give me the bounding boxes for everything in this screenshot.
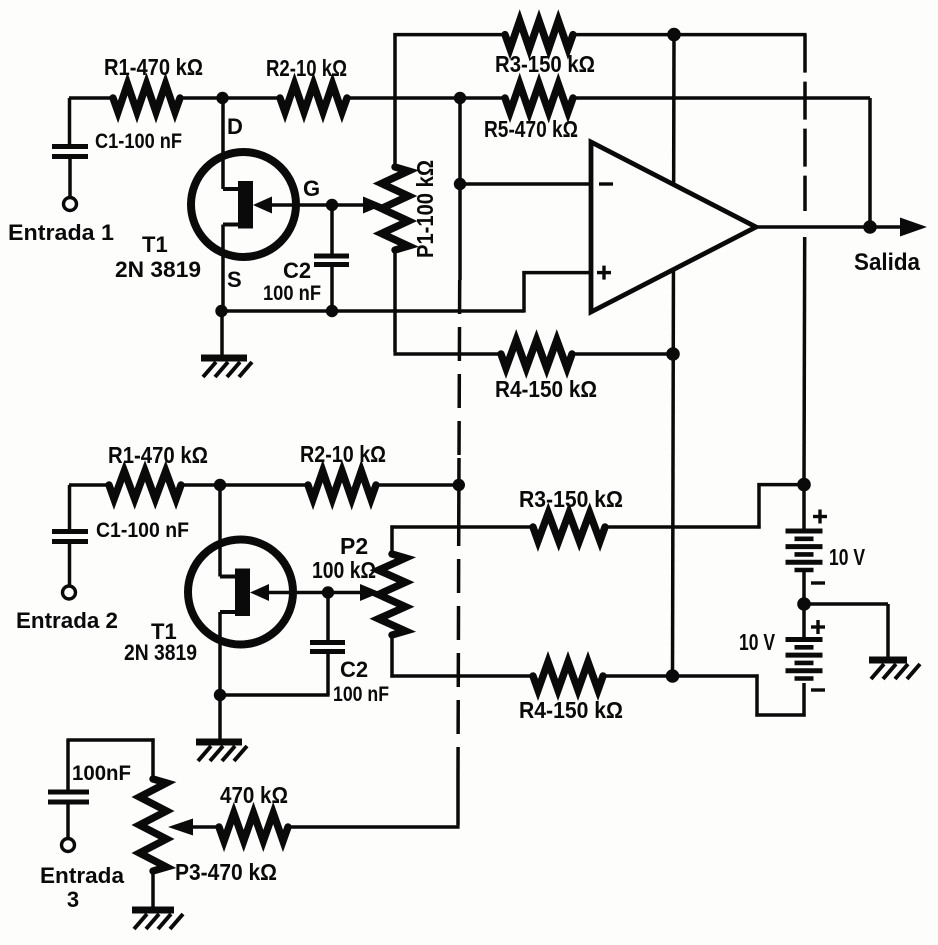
- svg-text:R1-470 kΩ: R1-470 kΩ: [108, 442, 208, 468]
- svg-text:R2-10 kΩ: R2-10 kΩ: [300, 441, 386, 467]
- transistor T1 (stage 1) 2N3819 JFET: [191, 152, 296, 257]
- capacitor C1 (stage 1) upper lead: [68, 98, 72, 144]
- capacitor C2 (stage 2) lower lead: [326, 654, 330, 695]
- node: C2 bottom stage 1: [326, 305, 338, 317]
- wire: P3 wiper to 470k resistor: [192, 825, 220, 829]
- wire: source rail stage 1 to plus-input jog: [221, 309, 524, 313]
- ground: stage 1 source: [220, 311, 224, 357]
- wire: R3 to battery dashed riser: [573, 33, 807, 37]
- terminal: Entrada 1: [64, 198, 77, 211]
- wire: R1 to drain node: [180, 96, 281, 100]
- svg-text:470 kΩ: 470 kΩ: [220, 782, 288, 808]
- svg-text:2N 3819: 2N 3819: [115, 257, 201, 282]
- wire: R5 to output riser: [573, 96, 870, 100]
- arrowhead: output Salida: [900, 218, 927, 237]
- transistor T1 (stage 1) drain wire: [221, 98, 225, 189]
- wire: summing bus dashed middle: [457, 280, 461, 458]
- wire: positive supply riser solid lower: [802, 237, 806, 484]
- node: drain stage 2: [214, 479, 226, 491]
- wire: op-amp output: [756, 225, 903, 229]
- battery B1 10V plates: [786, 529, 823, 534]
- wire: source rail stage 2: [220, 693, 330, 697]
- node: battery midpoint: [797, 597, 811, 611]
- node: gate/C2 stage 1: [326, 199, 338, 211]
- resistor 470k (input 3): [219, 813, 288, 841]
- resistor R1 (stage 1): [113, 84, 180, 112]
- node: top rail R3 junction: [667, 28, 681, 42]
- svg-text:100 kΩ: 100 kΩ: [312, 557, 376, 583]
- svg-text:R1-470 kΩ: R1-470 kΩ: [104, 54, 203, 80]
- capacitor C1 (stage 2) lower lead: [68, 544, 72, 586]
- op-amp plus sign: [597, 271, 611, 274]
- transistor T1 (stage 2) source wire: [218, 612, 222, 695]
- op-amp U1 triangle: [591, 142, 756, 312]
- resistor R5 feedback: [505, 84, 573, 112]
- potentiometer P3 bottom lead: [151, 871, 155, 909]
- resistor R2 (stage 1): [280, 84, 347, 112]
- wire: top rail to R3: [393, 33, 506, 37]
- terminal: Entrada 3: [62, 839, 75, 852]
- wire: input-2 top lead from C1 to R1: [69, 483, 110, 487]
- svg-text:P1-100 kΩ: P1-100 kΩ: [412, 160, 438, 258]
- wire: gate of T1 stage 1 to C2 node: [270, 203, 364, 207]
- svg-text:C1-100 nF: C1-100 nF: [96, 519, 189, 542]
- terminal: Entrada 2: [63, 586, 76, 599]
- svg-text:2N 3819: 2N 3819: [124, 640, 197, 665]
- capacitor C1 (stage 2) plates 100nF: [52, 529, 88, 534]
- node: gate/C2 stage 2: [322, 586, 334, 598]
- capacitor C2 (stage 1) upper lead: [330, 205, 334, 254]
- wire: battery midpoint: [802, 570, 806, 604]
- wire: battery top lead: [802, 485, 806, 529]
- svg-text:Entrada: Entrada: [40, 863, 125, 888]
- svg-text:Entrada 2: Entrada 2: [16, 608, 118, 633]
- capacitor C1 (stage 1) plates 100nF: [52, 144, 88, 149]
- arrowhead: wiper into P2: [360, 584, 381, 601]
- node: minus input tap: [454, 178, 466, 190]
- svg-text:D: D: [227, 114, 243, 139]
- potentiometer P3 470k zigzag: [140, 779, 167, 871]
- wire: R4 stage 2 to battery minus jog: [603, 674, 673, 678]
- node: source rail stage 2: [214, 689, 226, 701]
- wire: dashed positive supply riser (upper): [803, 35, 807, 211]
- capacitor C1 (stage 2) upper lead: [68, 485, 72, 529]
- wire: summing bus to input 3 resistor: [456, 774, 460, 825]
- wire: R1 to drain node stage 2: [181, 483, 309, 487]
- ground: stage 2 source: [218, 695, 222, 741]
- wire: summing bus dashed lower: [456, 512, 460, 774]
- wire: P2 bottom to R4 (stage 2): [390, 635, 394, 678]
- node: stage 2 output on summing bus: [453, 479, 465, 491]
- capacitor C (input 3) upper lead: [66, 740, 70, 790]
- wire: R4 to vertical bus: [572, 352, 673, 356]
- wire: summing bus solid upper segment: [458, 98, 462, 280]
- battery B2 10V plates: [786, 637, 823, 642]
- capacitor C2 (stage 1) lower lead: [330, 267, 334, 311]
- resistor R3 (stage 2): [533, 513, 605, 541]
- node: source rail stage 1: [215, 305, 227, 317]
- capacitor C2 (stage 1) plates 100nF: [314, 254, 349, 259]
- svg-text:R5-470 kΩ: R5-470 kΩ: [484, 116, 578, 142]
- wire: battery mid to B2: [802, 604, 806, 638]
- battery B1 minus sign: [811, 581, 825, 584]
- wire: summing bus at stage 2 drain node: [457, 458, 461, 512]
- svg-text:P2: P2: [340, 533, 368, 559]
- svg-text:3: 3: [67, 887, 79, 912]
- battery B2 plus sign: [811, 625, 825, 628]
- svg-text:R3-150 kΩ: R3-150 kΩ: [495, 51, 595, 77]
- node: R4 stage 2 right junction: [666, 669, 680, 683]
- svg-text:C2: C2: [283, 258, 311, 283]
- node: battery positive top: [797, 478, 811, 492]
- wire: top rail left riser to P1: [393, 33, 397, 167]
- svg-text:C2: C2: [340, 657, 368, 682]
- svg-text:S: S: [227, 267, 242, 292]
- wire: input-1 top lead from C1 to R1: [69, 96, 114, 100]
- potentiometer P1 100k zigzag: [382, 167, 409, 250]
- svg-text:100 nF: 100 nF: [333, 683, 389, 706]
- svg-text:Entrada 1: Entrada 1: [8, 220, 114, 245]
- resistor R4 (stage 2): [533, 662, 603, 690]
- wire: gate of T1 stage 2 to C2 node: [267, 591, 361, 595]
- wire: R2 stage 2 to summing bus: [376, 483, 459, 487]
- arrowhead: wiper into P3: [168, 819, 193, 836]
- transistor T1 (stage 2) drain wire: [218, 485, 222, 577]
- op-amp minus sign: [599, 182, 613, 185]
- wire: plus-input into op-amp: [522, 271, 591, 275]
- svg-text:R2-10 kΩ: R2-10 kΩ: [266, 55, 347, 81]
- battery B1 plus sign: [813, 515, 827, 518]
- wire: P1 bottom to R4: [393, 250, 397, 352]
- svg-text:Salida: Salida: [854, 249, 921, 276]
- transistor T1 (stage 2) 2N3819 JFET: [188, 540, 293, 645]
- battery B2 minus sign: [811, 688, 825, 691]
- wire: R2 to summing node and R5: [347, 96, 506, 100]
- arrowhead: wiper into P1: [363, 197, 384, 214]
- capacitor C (input 3) plates 100nF: [48, 790, 89, 795]
- capacitor C (input 3) lower lead: [66, 805, 70, 839]
- node: R4 stage 1 right: [666, 347, 680, 361]
- node: drain stage 1: [216, 92, 228, 104]
- svg-text:R4-150 kΩ: R4-150 kΩ: [495, 376, 597, 402]
- ground: battery midpoint: [869, 657, 907, 664]
- svg-text:10 V: 10 V: [829, 544, 865, 570]
- svg-text:T1: T1: [142, 232, 168, 257]
- resistor R1 (stage 2): [109, 471, 181, 499]
- transistor T1 (stage 1) source wire: [221, 225, 225, 312]
- node: summing at R2/R5: [454, 92, 466, 104]
- svg-text:10 V: 10 V: [739, 629, 775, 655]
- wire: P2 top to R3 (stage 2): [390, 525, 394, 554]
- wire: battery midpoint to ground: [804, 602, 888, 606]
- capacitor C2 (stage 2) plates 100nF: [310, 640, 345, 645]
- svg-text:P3-470 kΩ: P3-470 kΩ: [175, 859, 277, 885]
- wire: plus-input jog vertical: [522, 271, 526, 313]
- ground: P3 bottom: [132, 907, 174, 914]
- svg-text:R3-150 kΩ: R3-150 kΩ: [519, 486, 623, 512]
- resistor R4 (stage 1): [501, 340, 572, 368]
- capacitor C2 (stage 2) upper lead: [326, 593, 330, 641]
- resistor R3 (stage 1, top): [505, 21, 573, 49]
- wire: input-3 top rail: [66, 738, 154, 742]
- wire: feedback riser from output: [868, 98, 872, 227]
- svg-text:R4-150 kΩ: R4-150 kΩ: [519, 697, 623, 723]
- svg-text:100 nF: 100 nF: [263, 282, 321, 305]
- node: output junction: [863, 220, 877, 234]
- potentiometer P3 top lead: [151, 738, 155, 779]
- wire: minus-input into op-amp: [460, 182, 591, 186]
- capacitor C1 (stage 1) lower lead: [68, 159, 72, 198]
- resistor R2 (stage 2): [308, 471, 376, 499]
- svg-text:G: G: [303, 176, 320, 201]
- potentiometer P2 100k zigzag: [379, 554, 406, 635]
- wire: vertical bus R3/R4 junctions (x=673): [673, 35, 675, 676]
- wire: R3 stage 2 jog to battery: [605, 525, 761, 529]
- svg-text:C1-100 nF: C1-100 nF: [95, 130, 182, 153]
- svg-text:100nF: 100nF: [72, 762, 131, 785]
